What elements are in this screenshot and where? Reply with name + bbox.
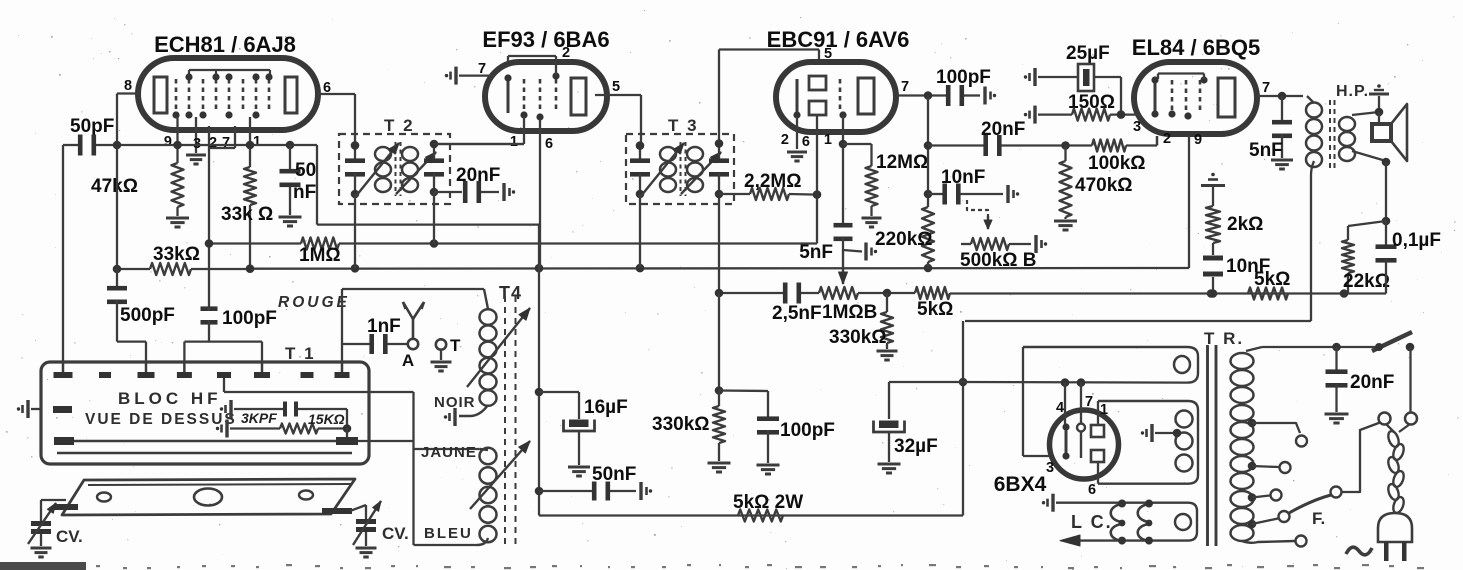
svg-text:JAUNE: JAUNE <box>421 444 477 461</box>
svg-text:20nF: 20nF <box>456 165 500 186</box>
svg-text:5kΩ 2W: 5kΩ 2W <box>733 492 803 513</box>
svg-text:50pF: 50pF <box>70 116 114 137</box>
svg-text:4: 4 <box>1056 400 1064 416</box>
svg-text:2: 2 <box>209 135 217 151</box>
svg-text:3: 3 <box>1133 119 1141 135</box>
svg-text:1: 1 <box>1100 402 1108 418</box>
svg-text:6: 6 <box>323 80 331 96</box>
svg-text:T 1: T 1 <box>285 344 316 363</box>
svg-text:8: 8 <box>124 78 132 94</box>
svg-text:220kΩ: 220kΩ <box>875 229 933 250</box>
svg-text:50: 50 <box>295 160 316 181</box>
svg-text:A: A <box>402 351 414 370</box>
svg-text:1MΩB: 1MΩB <box>822 302 877 323</box>
svg-text:BLEU: BLEU <box>424 525 473 542</box>
svg-text:2: 2 <box>781 132 789 148</box>
svg-text:0,1µF: 0,1µF <box>1392 230 1441 251</box>
svg-text:7: 7 <box>222 135 230 151</box>
svg-text:22kΩ: 22kΩ <box>1343 271 1390 292</box>
svg-text:L C.: L C. <box>1071 512 1113 532</box>
svg-text:500pF: 500pF <box>120 305 175 326</box>
svg-text:CV.: CV. <box>56 527 83 546</box>
svg-text:NOIR: NOIR <box>434 394 476 411</box>
svg-text:T R.: T R. <box>1204 329 1244 348</box>
svg-text:25µF: 25µF <box>1066 43 1110 64</box>
svg-text:5: 5 <box>612 79 620 95</box>
svg-text:7: 7 <box>1262 80 1270 96</box>
svg-text:470kΩ: 470kΩ <box>1075 175 1133 196</box>
svg-text:1nF: 1nF <box>367 316 401 337</box>
svg-text:12MΩ: 12MΩ <box>876 152 928 173</box>
svg-text:1MΩ: 1MΩ <box>299 245 341 266</box>
svg-text:330kΩ: 330kΩ <box>652 414 710 435</box>
svg-text:5kΩ: 5kΩ <box>1254 269 1290 290</box>
svg-text:2,2MΩ: 2,2MΩ <box>744 171 801 192</box>
svg-text:5kΩ: 5kΩ <box>917 299 953 320</box>
svg-text:3: 3 <box>1046 460 1054 476</box>
svg-text:100pF: 100pF <box>222 308 277 329</box>
svg-text:5nF: 5nF <box>799 242 833 263</box>
svg-text:2,5nF: 2,5nF <box>772 303 822 324</box>
svg-text:5: 5 <box>824 46 832 62</box>
svg-text:15KΩ: 15KΩ <box>308 411 345 427</box>
svg-text:EBC91 / 6AV6: EBC91 / 6AV6 <box>767 27 910 52</box>
svg-text:10nF: 10nF <box>941 167 985 188</box>
svg-text:47kΩ: 47kΩ <box>91 176 138 197</box>
svg-text:7: 7 <box>901 79 909 95</box>
svg-text:100kΩ: 100kΩ <box>1088 153 1146 174</box>
svg-text:6: 6 <box>802 134 810 150</box>
svg-text:BLOC HF: BLOC HF <box>118 389 222 408</box>
svg-text:100pF: 100pF <box>780 420 835 441</box>
svg-text:1: 1 <box>510 134 518 150</box>
svg-text:9: 9 <box>164 134 172 150</box>
svg-text:20nF: 20nF <box>981 119 1025 140</box>
svg-text:T 2: T 2 <box>384 116 415 135</box>
svg-text:1: 1 <box>824 132 832 148</box>
svg-text:32µF: 32µF <box>894 436 938 457</box>
svg-text:50nF: 50nF <box>592 464 636 485</box>
svg-text:3KPF: 3KPF <box>241 410 277 426</box>
svg-text:2kΩ: 2kΩ <box>1227 214 1263 235</box>
svg-text:33kΩ: 33kΩ <box>153 244 200 265</box>
svg-text:1: 1 <box>253 134 261 150</box>
svg-text:330kΩ: 330kΩ <box>829 327 887 348</box>
svg-text:6: 6 <box>1088 482 1096 498</box>
svg-text:7: 7 <box>478 61 486 77</box>
svg-text:5nF: 5nF <box>1249 140 1283 161</box>
svg-text:T: T <box>450 336 461 355</box>
svg-text:F.: F. <box>1312 509 1325 528</box>
svg-text:500kΩ B: 500kΩ B <box>960 250 1037 271</box>
svg-text:T 3: T 3 <box>668 116 699 135</box>
svg-text:CV.: CV. <box>382 524 409 543</box>
svg-text:2: 2 <box>562 45 570 61</box>
svg-text:6BX4: 6BX4 <box>994 473 1047 496</box>
svg-text:H.P.: H.P. <box>1336 83 1369 100</box>
svg-text:ROUGE: ROUGE <box>278 294 350 311</box>
svg-text:nF: nF <box>293 182 316 203</box>
svg-text:9: 9 <box>1194 132 1202 148</box>
svg-text:100pF: 100pF <box>936 67 991 88</box>
svg-text:EF93 / 6BA6: EF93 / 6BA6 <box>482 27 609 52</box>
svg-text:VUE DE DESSUS: VUE DE DESSUS <box>85 411 237 428</box>
svg-text:EL84 / 6BQ5: EL84 / 6BQ5 <box>1132 35 1260 60</box>
svg-text:7: 7 <box>1085 394 1093 410</box>
svg-text:2: 2 <box>1163 131 1171 147</box>
svg-text:ECH81 / 6AJ8: ECH81 / 6AJ8 <box>154 32 296 57</box>
svg-text:6: 6 <box>545 136 553 152</box>
svg-text:16µF: 16µF <box>584 397 628 418</box>
svg-text:33k Ω: 33k Ω <box>221 204 273 225</box>
svg-text:20nF: 20nF <box>1350 372 1394 393</box>
svg-text:T4: T4 <box>499 283 522 303</box>
